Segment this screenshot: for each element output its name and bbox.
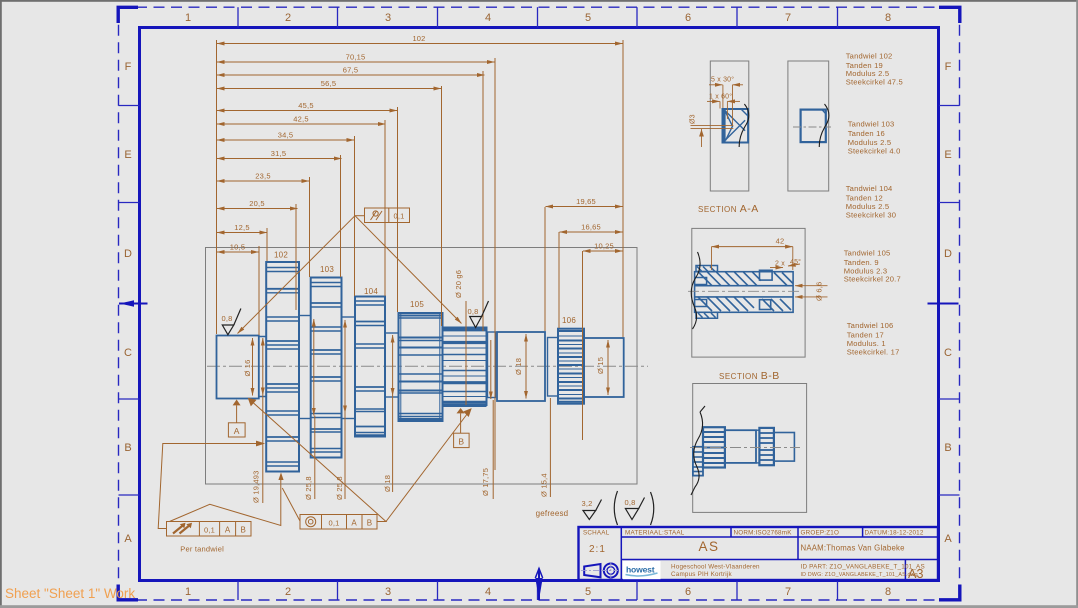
- svg-text:Ø 16: Ø 16: [243, 359, 252, 376]
- A-A gear tooth section 1: [723, 109, 749, 143]
- dia 15,4 line: [540, 398, 551, 497]
- svg-text:3: 3: [385, 12, 391, 24]
- svg-text:ID DWG: Z1O_VANGLABEKE_T_101_: ID DWG: Z1O_VANGLABEKE_T_101_AS.dwg: [801, 572, 918, 578]
- datum B triangle and box: [454, 408, 470, 448]
- arrow on ext line at spline step: [490, 340, 492, 399]
- svg-text:B: B: [367, 519, 373, 528]
- roughness 0,8 spline: [467, 301, 488, 328]
- svg-text:SECTION B-B: SECTION B-B: [719, 370, 780, 382]
- section A-A box 2: [788, 61, 829, 191]
- svg-text:NAAM:Thomas Van Glabeke: NAAM:Thomas Van Glabeke: [801, 544, 905, 553]
- left cylinder: [217, 336, 259, 399]
- svg-text:1: 1: [185, 12, 191, 24]
- dim 10,5: [217, 243, 259, 253]
- svg-text:Ø 15: Ø 15: [596, 357, 605, 374]
- svg-text:F: F: [945, 61, 952, 73]
- svg-text:Steekcirkel 4.0: Steekcirkel 4.0: [848, 147, 901, 156]
- svg-text:31,5: 31,5: [271, 149, 286, 158]
- svg-text:6: 6: [685, 586, 691, 598]
- svg-text:5: 5: [585, 586, 591, 598]
- svg-text:70,15: 70,15: [346, 53, 366, 62]
- tandwiel 105 specs: [844, 249, 901, 284]
- corner trim mark top-right: [939, 7, 960, 23]
- dia 17,75 line: [481, 400, 493, 499]
- svg-text:SECTION A-A: SECTION A-A: [698, 203, 759, 215]
- chamfer dim 5x30: [709, 76, 743, 126]
- svg-text:7: 7: [785, 586, 791, 598]
- svg-text:1 x 60°: 1 x 60°: [709, 93, 732, 101]
- svg-text:Ø 6,6: Ø 6,6: [815, 282, 824, 301]
- svg-text:ID PART: Z1O_VANGLABEKE_T_101: ID PART: Z1O_VANGLABEKE_T_101_AS: [801, 564, 925, 571]
- svg-text:0,1: 0,1: [393, 212, 404, 221]
- svg-text:A: A: [225, 526, 231, 535]
- B-B profile lower stub: [693, 447, 703, 476]
- section B-B box: [692, 228, 805, 357]
- svg-text:2: 2: [285, 586, 291, 598]
- right end cylinder: [584, 338, 624, 397]
- dim 67,5: [217, 66, 485, 76]
- tandwiel 104 specs: [846, 184, 897, 219]
- gear 106: [558, 329, 584, 404]
- svg-text:2:1: 2:1: [589, 544, 606, 555]
- left ruler ticks: [119, 106, 140, 496]
- B-B centerline: [688, 290, 800, 292]
- svg-text:Tandwiel 102: Tandwiel 102: [846, 52, 893, 61]
- svg-text:B: B: [124, 442, 131, 454]
- parenthesis right: [651, 492, 654, 525]
- svg-text:0,8: 0,8: [221, 314, 232, 323]
- svg-text:Ø3: Ø3: [690, 114, 697, 124]
- svg-text:Per tandwiel: Per tandwiel: [180, 545, 224, 554]
- window edge right: [1076, 0, 1078, 608]
- dia 6,6: [795, 282, 828, 301]
- svg-text:16,65: 16,65: [581, 223, 601, 232]
- dia 16 arrows: [252, 338, 254, 396]
- svg-text:23,5: 23,5: [255, 172, 270, 181]
- svg-text:1: 1: [185, 586, 191, 598]
- svg-text:A: A: [234, 426, 240, 436]
- cylinder D18: [497, 332, 545, 401]
- window edge bottom: [0, 605, 1078, 608]
- svg-text:5 x 30°: 5 x 30°: [711, 76, 734, 84]
- svg-text:0,8: 0,8: [467, 307, 478, 316]
- tolerance frame 2 concentricity: [300, 515, 377, 530]
- svg-text:2 x: 2 x: [775, 261, 785, 268]
- svg-text:20,5: 20,5: [249, 199, 264, 208]
- dim 31,5: [217, 149, 342, 159]
- svg-text:8: 8: [885, 12, 891, 24]
- svg-text:Tandwiel 104: Tandwiel 104: [846, 184, 893, 193]
- gear 102: [266, 262, 299, 472]
- svg-text:E: E: [124, 149, 131, 161]
- projection symbol circles: [604, 564, 618, 578]
- svg-text:5: 5: [585, 12, 591, 24]
- tandwiel 106 specs: [847, 321, 900, 356]
- flatness frame 0,1: [365, 208, 410, 223]
- svg-text:0,1: 0,1: [204, 526, 215, 535]
- window edge top: [0, 0, 1078, 2]
- B-B profile right cylinder: [774, 433, 795, 462]
- svg-text:MATERIAAL:STAAL: MATERIAAL:STAAL: [625, 530, 685, 537]
- dia 18 cylinder: [514, 334, 526, 399]
- svg-text:45,5: 45,5: [298, 101, 313, 110]
- dim 19,65: [546, 197, 623, 207]
- dim 102: [217, 34, 623, 44]
- svg-text:SCHAAL: SCHAAL: [583, 530, 610, 537]
- shoulder ring: [259, 337, 266, 397]
- view box main: [206, 248, 638, 485]
- dia 25,8 first: [304, 319, 315, 500]
- svg-text:DATUM:18-12-2012: DATUM:18-12-2012: [865, 530, 924, 537]
- parenthesis left: [614, 491, 617, 525]
- section A-A box 1: [710, 61, 749, 191]
- svg-text:E: E: [944, 149, 951, 161]
- svg-text:102: 102: [412, 34, 425, 43]
- centering mark left: [119, 300, 148, 306]
- dim 20,5: [217, 199, 298, 209]
- dim 12,5: [217, 223, 267, 233]
- bottom ruler numbers: [185, 586, 891, 598]
- A-A break curve 1: [739, 104, 749, 147]
- right ruler letters: [944, 61, 952, 545]
- title block inner lines: [621, 527, 937, 580]
- svg-text:gefreesd: gefreesd: [536, 509, 569, 518]
- top ruler ticks: [238, 7, 838, 27]
- svg-text:Tandwiel 105: Tandwiel 105: [844, 249, 891, 258]
- svg-text:103: 103: [320, 265, 334, 274]
- title block outer border: [579, 527, 939, 580]
- outer dashed sheet border: [119, 7, 960, 600]
- svg-text:102: 102: [274, 251, 288, 260]
- svg-text:10,5: 10,5: [230, 243, 245, 252]
- svg-text:3: 3: [385, 586, 391, 598]
- svg-text:A3: A3: [908, 567, 924, 581]
- dia 18 neck: [383, 335, 393, 492]
- svg-text:B: B: [241, 526, 247, 535]
- svg-text:6: 6: [685, 12, 691, 24]
- extension lines top: [217, 40, 624, 470]
- window edge left: [0, 0, 2, 608]
- shaft centerline: [207, 365, 648, 367]
- svg-text:7: 7: [785, 12, 791, 24]
- svg-text:12,5: 12,5: [234, 223, 249, 232]
- roughness 3,2 general: [582, 499, 602, 520]
- svg-text:56,5: 56,5: [321, 79, 336, 88]
- svg-text:Ø 18: Ø 18: [383, 475, 392, 492]
- dim 70,15: [217, 53, 495, 63]
- dim 56,5: [217, 79, 441, 89]
- B-B break curve: [691, 252, 700, 329]
- svg-text:Tandwiel 106: Tandwiel 106: [847, 321, 894, 330]
- splined section: [443, 328, 487, 407]
- corner trim mark bottom-left: [118, 585, 138, 600]
- svg-text:42: 42: [776, 237, 785, 246]
- svg-text:Campus PIH Kortrijk: Campus PIH Kortrijk: [671, 571, 732, 578]
- svg-text:4: 4: [485, 586, 491, 598]
- arrow under gear 102: [278, 473, 283, 481]
- svg-text:Ø 19,493: Ø 19,493: [252, 471, 261, 503]
- svg-text:D: D: [124, 248, 132, 260]
- svg-text:Sheet "Sheet 1" Work: Sheet "Sheet 1" Work: [5, 586, 135, 601]
- roughness 0,8 general: [625, 498, 645, 520]
- neck 104-105: [385, 333, 399, 397]
- leader to frame 2 from gear arrow: [282, 488, 300, 521]
- svg-text:C: C: [944, 347, 952, 359]
- dim 34,5: [217, 131, 354, 141]
- svg-text:Hogeschool West-Vlaanderen: Hogeschool West-Vlaanderen: [671, 564, 760, 571]
- A-A gear tooth section 2: [801, 110, 826, 143]
- neck 103-104: [342, 317, 356, 419]
- neck cyl18-106: [548, 338, 559, 397]
- svg-text:howest: howest: [626, 565, 655, 575]
- dim 10,25: [583, 242, 623, 252]
- svg-text:34,5: 34,5: [278, 131, 293, 140]
- svg-text:Tandwiel 103: Tandwiel 103: [848, 120, 895, 129]
- B-B profile centerline: [690, 447, 800, 449]
- corner trim mark top-left: [118, 7, 138, 23]
- svg-text:Ø 17,75: Ø 17,75: [481, 468, 490, 496]
- svg-text:AS: AS: [698, 539, 719, 554]
- centering mark right: [928, 303, 959, 305]
- neck spline-cyl18: [488, 332, 496, 398]
- tandwiel 103 specs: [848, 120, 901, 156]
- roughness 0,8 left: [221, 309, 240, 335]
- svg-text:Ø 15,4: Ø 15,4: [540, 473, 549, 497]
- A-A hole lines: [691, 126, 734, 147]
- chamfer dim 1x60: [707, 93, 740, 120]
- leader V from flatness frame: [238, 216, 462, 334]
- B-B profile break curve: [691, 406, 705, 495]
- top ruler numbers: [185, 12, 891, 24]
- svg-text:Ø 18: Ø 18: [514, 358, 523, 375]
- dim 2x45: [770, 258, 801, 268]
- dim 42: [712, 237, 793, 271]
- svg-text:19,65: 19,65: [576, 197, 596, 206]
- svg-text:8: 8: [885, 586, 891, 598]
- svg-text:C: C: [124, 347, 132, 359]
- svg-text:106: 106: [562, 316, 576, 325]
- svg-text:GROEP:Z1O: GROEP:Z1O: [801, 530, 840, 537]
- frame1 leader peak: [170, 475, 281, 526]
- svg-text:B: B: [458, 436, 464, 446]
- svg-text:Steekcirkel. 17: Steekcirkel. 17: [847, 348, 900, 357]
- svg-text:A: A: [351, 519, 357, 528]
- dim 16,65: [560, 223, 623, 233]
- inner drawing frame: [140, 28, 939, 581]
- right ruler ticks: [939, 106, 960, 496]
- frame1 leader left: [158, 441, 263, 528]
- svg-text:105: 105: [410, 300, 424, 309]
- A-A break curve 2: [819, 104, 829, 147]
- dim 23,5: [217, 172, 309, 182]
- svg-text:104: 104: [364, 287, 378, 296]
- dia 15 arrows: [596, 340, 608, 395]
- gear 105: [399, 313, 443, 421]
- dia 25,8 second: [335, 320, 345, 500]
- B-B profile mid cylinder: [725, 430, 756, 463]
- section B-B profile box: [693, 384, 807, 513]
- howest logo: [623, 561, 661, 579]
- svg-text:67,5: 67,5: [343, 66, 358, 75]
- svg-text:Ø 25,8: Ø 25,8: [304, 476, 313, 500]
- svg-text:D: D: [944, 248, 952, 260]
- svg-text:F: F: [125, 61, 132, 73]
- svg-text:Ø 20 g6: Ø 20 g6: [454, 270, 463, 298]
- svg-text:Steekcirkel 20.7: Steekcirkel 20.7: [844, 275, 901, 284]
- projection symbol trapezoid: [584, 564, 600, 577]
- svg-text:B: B: [944, 442, 951, 454]
- svg-text:0,1: 0,1: [328, 519, 339, 528]
- dim 45,5: [217, 101, 397, 111]
- svg-text:Steekcirkel 30: Steekcirkel 30: [846, 210, 897, 219]
- B-B left gear teeth: [695, 266, 718, 319]
- bottom ruler ticks: [238, 581, 838, 600]
- svg-text:42,5: 42,5: [293, 115, 308, 124]
- neck 102-103: [299, 316, 311, 419]
- B-B shaft section body: [695, 270, 794, 312]
- svg-text:3,2: 3,2: [582, 499, 593, 508]
- centering mark bottom: [535, 569, 542, 601]
- svg-text:NORM:ISO2768mK: NORM:ISO2768mK: [734, 530, 793, 537]
- tandwiel 102 specs: [846, 52, 903, 87]
- svg-text:Steekcirkel 47.5: Steekcirkel 47.5: [846, 78, 903, 87]
- B-B profile splined hub: [756, 428, 774, 465]
- svg-text:A: A: [124, 533, 132, 545]
- svg-text:10,25: 10,25: [594, 242, 614, 251]
- dim 42,5: [217, 115, 386, 125]
- tolerance frame 1 runout: [167, 522, 252, 537]
- svg-text:Tanden 16: Tanden 16: [848, 129, 885, 138]
- svg-text:2: 2: [285, 12, 291, 24]
- frame2 V leaders: [249, 399, 471, 522]
- corner trim mark bottom-right: [939, 585, 960, 600]
- dia 19,493 line: [252, 338, 263, 503]
- section line through spline: [465, 301, 467, 405]
- svg-text:4: 4: [485, 12, 491, 24]
- gear 103: [311, 278, 342, 458]
- B-B profile left gear: [703, 427, 725, 467]
- gear 104: [355, 297, 385, 437]
- svg-text:A: A: [944, 533, 952, 545]
- svg-text:0,8: 0,8: [625, 498, 636, 507]
- datum A triangle and box: [228, 400, 245, 438]
- left ruler letters: [124, 61, 132, 545]
